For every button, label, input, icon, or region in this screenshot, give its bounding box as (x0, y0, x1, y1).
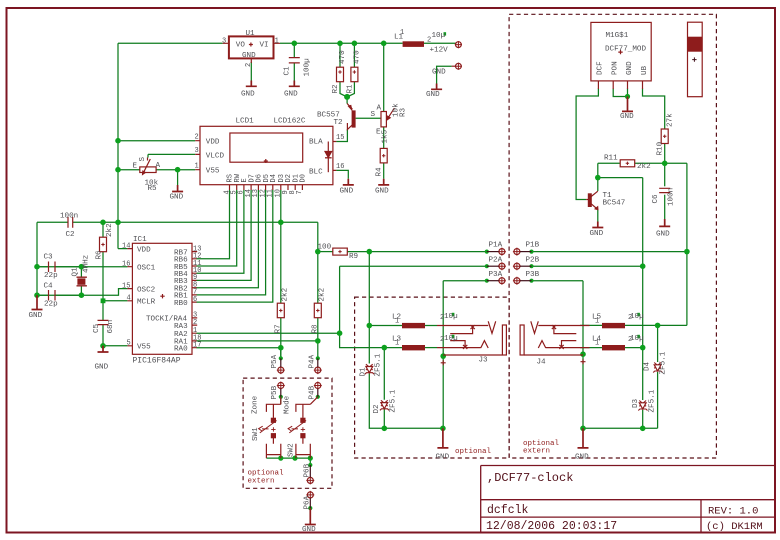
wire module GND pin (627, 89, 629, 97)
gnd symbol BLC (343, 179, 354, 185)
svg-text:3: 3 (222, 38, 226, 46)
svg-text:1: 1 (400, 29, 404, 37)
svg-text:GND: GND (436, 454, 450, 462)
svg-text:RA0: RA0 (174, 346, 188, 354)
IC1 PIC16F84 box (132, 243, 192, 354)
svg-text:GND: GND (426, 91, 440, 99)
wire UB pin to R10 (643, 89, 665, 130)
wire left gnd rail x37 (36, 222, 38, 295)
wire J3 sleeve down to gnd rail (442, 356, 444, 428)
svg-text:100: 100 (318, 244, 332, 252)
svg-text:22p: 22p (44, 272, 58, 280)
svg-text:R9: R9 (349, 253, 359, 261)
switch SW1 (259, 397, 281, 458)
dashed box switches (243, 378, 332, 488)
wire DCF pin down and to T1 base (576, 89, 598, 200)
capacitor C6 (659, 188, 670, 192)
inductor L4 (602, 345, 625, 350)
svg-text:GND: GND (29, 312, 43, 320)
gnd symbol R4 (378, 179, 389, 185)
wire D4 column (657, 325, 659, 428)
wire J4 sleeve to gnd rail (582, 354, 584, 428)
svg-text:BLC: BLC (309, 168, 323, 176)
svg-text:D3: D3 (632, 398, 640, 408)
svg-text:REV: 1.0: REV: 1.0 (708, 506, 758, 518)
svg-text:GND: GND (340, 188, 354, 196)
svg-text:ZF5.1: ZF5.1 (390, 389, 398, 412)
svg-text:S: S (139, 157, 147, 162)
svg-text:470: 470 (339, 50, 347, 64)
gnd symbol T1 (592, 222, 603, 228)
wire R9 left (318, 251, 333, 253)
terminal P2A (487, 262, 506, 270)
svg-text:1: 1 (395, 340, 399, 348)
svg-text:P4B: P4B (309, 385, 317, 399)
wire crystal top/bottom (80, 267, 82, 296)
svg-text:extern: extern (523, 448, 550, 456)
svg-text:1: 1 (195, 163, 199, 171)
svg-text:GND: GND (375, 188, 389, 196)
svg-text:ZF5.1: ZF5.1 (375, 353, 383, 376)
wire R8 bottom to P4A (317, 318, 319, 359)
svg-text:P1B: P1B (526, 242, 540, 250)
svg-text:R3: R3 (400, 107, 408, 117)
wire U1 gnd pin2 (250, 62, 252, 81)
wire left +5V vertical rail from U1 pin3 (118, 43, 127, 248)
svg-text:R4: R4 (376, 167, 384, 177)
svg-text:C5: C5 (93, 323, 101, 333)
wire L2 row (369, 325, 437, 327)
wire T2 collector to BLA (336, 129, 347, 142)
wire P5B to SW1 (280, 397, 282, 405)
wire OSC1 row (37, 266, 127, 268)
svg-text:1: 1 (595, 340, 599, 348)
terminal P6A (306, 491, 314, 508)
svg-text:J3: J3 (479, 357, 489, 365)
jack J4 (520, 321, 589, 355)
resistor R1 (351, 67, 358, 82)
wire RA2 row to dot A (196, 332, 339, 334)
terminal GND top (452, 63, 462, 70)
wire P1B row (532, 251, 687, 253)
svg-text:16: 16 (336, 163, 344, 171)
svg-text:C1: C1 (284, 66, 292, 76)
svg-text:P6A: P6A (304, 495, 312, 509)
wire LCD VSS row with pot (118, 169, 195, 171)
wire T2 emitter node (346, 97, 348, 104)
svg-text:R8: R8 (312, 324, 320, 334)
svg-text:R7: R7 (275, 324, 283, 333)
svg-text:P4A: P4A (309, 354, 317, 368)
transistor T1 BC547 (586, 191, 598, 210)
wire R3 bottom to R4 (383, 127, 385, 148)
terminal P3B (513, 277, 532, 285)
battery symbol (688, 22, 703, 97)
title block (481, 466, 775, 533)
wire C1 top (293, 43, 295, 57)
svg-text:7: 7 (296, 190, 304, 194)
J4 sleeve origin cross (581, 359, 586, 364)
svg-text:P3B: P3B (526, 271, 540, 279)
svg-text:17: 17 (193, 342, 201, 350)
svg-text:PIC16F84AP: PIC16F84AP (133, 357, 181, 366)
svg-text:U1: U1 (246, 30, 256, 38)
zener diode D1 (365, 364, 374, 374)
wire +5V horizontal rail (37, 221, 318, 223)
svg-text:C4: C4 (44, 283, 54, 291)
svg-text:GND: GND (95, 364, 109, 372)
svg-text:12/08/2006 20:03:17: 12/08/2006 20:03:17 (486, 520, 617, 533)
svg-text:S: S (371, 111, 376, 119)
svg-text:GND: GND (656, 231, 670, 239)
resistor R9 (333, 248, 348, 255)
svg-text:VDD: VDD (137, 247, 151, 255)
svg-text:ZF5.1: ZF5.1 (649, 389, 657, 412)
svg-text:GND: GND (241, 90, 255, 98)
svg-text:C3: C3 (44, 254, 54, 262)
wire right gnd rail (583, 427, 658, 429)
svg-text:GND: GND (284, 90, 298, 98)
svg-text:MCLR: MCLR (137, 299, 156, 307)
svg-text:T2: T2 (334, 119, 344, 127)
svg-text:PON: PON (611, 61, 619, 75)
capacitor C3 (49, 262, 56, 273)
svg-text:100n: 100n (60, 213, 78, 221)
inductor L2 (402, 323, 425, 328)
resistor R8 (314, 303, 321, 318)
svg-text:R2: R2 (332, 84, 340, 94)
zener diode D4 (653, 363, 662, 373)
LCD pin stubs (195, 141, 336, 190)
svg-text:4MHz: 4MHz (83, 255, 91, 273)
gnd symbol module (622, 97, 633, 112)
svg-text:V55: V55 (137, 344, 151, 352)
svg-text:GND: GND (575, 454, 589, 462)
J3 sleeve origin cross (441, 360, 446, 365)
svg-text:GND: GND (590, 230, 604, 238)
wire T2 base to R3 (356, 117, 382, 119)
wire T1 collector node right to P2B column (598, 177, 643, 179)
wire SW bottom rail (266, 457, 310, 459)
svg-text:RA3: RA3 (174, 323, 188, 331)
svg-text:VLCD: VLCD (206, 152, 225, 160)
svg-text:GND: GND (626, 61, 634, 75)
svg-text:68n: 68n (107, 320, 115, 334)
wire OSC2 row jog (37, 289, 127, 296)
wire D3 column from T1 collector node (642, 178, 644, 429)
svg-text:OSC2: OSC2 (137, 287, 156, 295)
crystal Q1 (77, 277, 87, 286)
wire D1 bottom rail left box (369, 373, 443, 428)
svg-text:OSC1: OSC1 (137, 265, 156, 273)
resistor R2 (337, 67, 344, 82)
wire R7 bottom to P5A (280, 318, 282, 359)
svg-text:10µ: 10µ (432, 32, 446, 40)
svg-text:R11: R11 (604, 155, 618, 163)
gnd symbol crystal rail (32, 295, 43, 309)
svg-text:extern: extern (248, 478, 275, 486)
svg-text:J4: J4 (537, 359, 547, 367)
wire R4 bottom to gnd (383, 163, 385, 179)
pin end dots (485, 250, 489, 254)
svg-text:D4: D4 (270, 174, 278, 182)
terminal P3A (487, 277, 506, 285)
mclr origin cross (160, 294, 164, 298)
svg-text:A: A (377, 105, 382, 113)
capacitor C4 (49, 290, 56, 301)
gnd symbol +12V terminal (431, 84, 442, 90)
svg-text:C2: C2 (66, 231, 76, 239)
svg-text:10µ: 10µ (630, 335, 644, 343)
jack J3 (437, 321, 506, 355)
svg-text:E: E (376, 129, 381, 137)
svg-text:22p: 22p (44, 301, 58, 309)
svg-text:GND: GND (242, 52, 256, 60)
wire R9 node down to L2 and D1 (368, 252, 370, 364)
svg-text:GND: GND (302, 526, 316, 534)
svg-text:R5: R5 (148, 185, 158, 193)
dashed box optional left (355, 297, 510, 458)
wire R3 top to rail (383, 43, 385, 111)
wire P3B row and down to J4 sleeve (532, 281, 584, 355)
inductor L5 (602, 323, 625, 328)
svg-text:UB: UB (641, 65, 649, 75)
potentiometer R3 (381, 108, 394, 127)
svg-text:100n: 100n (668, 188, 676, 206)
svg-text:P5B: P5B (271, 385, 279, 399)
svg-text:A: A (156, 162, 161, 170)
svg-text:15: 15 (336, 134, 344, 142)
svg-text:1k5: 1k5 (382, 129, 390, 143)
svg-text:27k: 27k (667, 113, 675, 127)
terminal P5B (277, 382, 285, 397)
svg-text:D1: D1 (360, 367, 368, 377)
wire R11 row (598, 162, 665, 164)
svg-text:2k2: 2k2 (282, 287, 290, 301)
svg-text:P5A: P5A (271, 354, 279, 368)
svg-text:R6: R6 (96, 250, 104, 260)
svg-text:Mode: Mode (284, 395, 292, 414)
svg-text:IC1: IC1 (133, 236, 147, 244)
svg-text:LCD1: LCD1 (236, 118, 255, 126)
wire P2A vertical and corner to L3 (340, 266, 402, 347)
svg-text:ZF5.1: ZF5.1 (660, 351, 668, 374)
svg-text:4: 4 (127, 295, 131, 303)
resistor R7 (277, 303, 284, 318)
capacitor C1 (289, 58, 300, 63)
svg-text:optional: optional (455, 448, 492, 456)
gnd symbol C5 (98, 346, 109, 352)
svg-text:DCF77_MOD: DCF77_MOD (605, 46, 646, 54)
wire D2 column (383, 348, 385, 429)
svg-text:11: 11 (267, 189, 275, 197)
wire +12V terminal GND stub (437, 66, 452, 83)
terminal P6B (306, 465, 314, 484)
svg-text:Q1: Q1 (72, 267, 80, 277)
wire C3 C4 plates gaps (37, 267, 81, 296)
regulator U1 (223, 36, 280, 63)
wire LCD VDD row (118, 140, 195, 142)
svg-text:C6: C6 (652, 194, 660, 204)
svg-text:GND: GND (620, 113, 634, 121)
wire LCD data bus verticals (196, 190, 229, 259)
wire BLC to gnd (336, 170, 348, 178)
svg-text:6: 6 (193, 296, 197, 304)
wire LCD D3 pin to rail / R7 column (280, 190, 282, 303)
transistor T2 BC557 (347, 104, 355, 130)
svg-text:2k2: 2k2 (637, 163, 651, 171)
terminal P1A (487, 248, 506, 256)
wire L3 row right of rect (425, 347, 437, 349)
svg-text:VDD: VDD (206, 139, 220, 147)
svg-text:,DCF77-clock: ,DCF77-clock (487, 471, 573, 485)
svg-text:1: 1 (275, 38, 279, 46)
zener diode D2 (380, 400, 389, 410)
wire +12V top rail left of U1 (118, 42, 223, 44)
svg-text:optional: optional (248, 470, 285, 478)
svg-text:2k2: 2k2 (319, 287, 327, 301)
svg-text:P1A: P1A (489, 242, 503, 250)
svg-text:15: 15 (122, 283, 130, 291)
resistor R11 (620, 160, 635, 167)
wire MCLR row (103, 300, 127, 302)
svg-text:10µ: 10µ (444, 335, 458, 343)
wire R11 left corner to T1 collector (597, 163, 599, 191)
svg-text:16: 16 (122, 261, 130, 269)
gnd symbol C6 (659, 219, 670, 226)
svg-text:DCF: DCF (597, 61, 605, 75)
svg-text:2: 2 (193, 319, 197, 327)
svg-text:VI: VI (260, 42, 269, 50)
terminal P5A (277, 358, 285, 374)
svg-text:2: 2 (245, 63, 253, 67)
gnd symbol J4 (578, 428, 589, 448)
svg-text:E: E (133, 163, 138, 171)
svg-text:P3A: P3A (489, 271, 503, 279)
capacitor C2 (68, 217, 73, 228)
dashed box optional extern right (509, 14, 716, 458)
svg-text:D0: D0 (300, 174, 308, 182)
inductor L3 (402, 345, 425, 350)
wire P2A row (340, 265, 487, 267)
gnd symbol LCD VSS (172, 185, 183, 192)
svg-text:2: 2 (195, 134, 199, 142)
terminal P1B (513, 248, 532, 256)
wire R1 top (347, 43, 354, 97)
svg-text:dcfclk: dcfclk (487, 504, 529, 517)
terminal P4B (314, 382, 322, 397)
wire L5 row (580, 324, 687, 326)
svg-text:R1: R1 (347, 84, 355, 94)
module origin cross (618, 50, 622, 54)
LCD1 box (200, 126, 333, 184)
terminal +12V (455, 41, 462, 48)
svg-text:(c) DK1RM: (c) DK1RM (706, 521, 763, 533)
wire L1 ends (455, 43, 457, 45)
svg-text:14: 14 (122, 243, 130, 251)
resistor R10 (661, 129, 668, 144)
wire R9 right to P1A (347, 251, 487, 253)
gnd symbol C1 (289, 81, 300, 87)
capacitor C5 (98, 320, 109, 324)
potentiometer R5 (140, 158, 156, 176)
wire C1 bottom to gnd (293, 63, 295, 80)
svg-text:D2: D2 (373, 404, 381, 414)
DCF77 module M1 (591, 22, 651, 89)
LCD backlight diode (325, 142, 332, 173)
svg-text:+12V: +12V (430, 47, 449, 55)
svg-text:1: 1 (595, 318, 599, 326)
svg-text:3: 3 (195, 147, 199, 155)
svg-text:1: 1 (395, 318, 399, 326)
svg-text:2k2: 2k2 (106, 223, 114, 237)
svg-text:P2B: P2B (526, 256, 540, 264)
svg-text:GND: GND (432, 69, 446, 77)
wire rail corner down to R8/R9 (317, 222, 319, 303)
svg-text:Zone: Zone (252, 395, 260, 414)
wire VSS IC row (103, 345, 127, 347)
wire C6 bottom to gnd (664, 195, 666, 219)
svg-text:V55: V55 (206, 168, 220, 176)
wire T1 emitter to gnd (597, 210, 599, 222)
svg-text:RB0: RB0 (174, 300, 188, 308)
terminal P4A (314, 358, 322, 374)
inductor L1 (403, 41, 424, 47)
svg-text:GND: GND (170, 194, 184, 202)
resistor R4 (380, 148, 387, 163)
svg-text:5: 5 (127, 340, 131, 348)
wire RA0 row (196, 347, 280, 349)
IC1 pin stubs (127, 249, 197, 348)
terminal P2B (513, 262, 532, 270)
zener diode D3 (638, 401, 647, 411)
wire P6B pin (309, 458, 311, 465)
wire P1B up column to R10 node (665, 163, 687, 325)
svg-text:BLA: BLA (309, 139, 323, 147)
svg-text:R10: R10 (657, 141, 665, 155)
svg-text:LCD162C: LCD162C (274, 118, 306, 126)
wire L4 row (580, 347, 643, 349)
wire P5A pin (280, 348, 282, 359)
wire LCD VLCD row to pot S (148, 154, 195, 157)
wire PON pin to gnd node (613, 89, 627, 97)
svg-text:P2A: P2A (489, 256, 503, 264)
svg-text:10µ: 10µ (444, 313, 458, 321)
wire P3A row and down to J3 sleeve (443, 281, 487, 356)
gnd symbol U1 (246, 81, 257, 87)
resistor R6 (100, 237, 107, 252)
svg-text:P6B: P6B (304, 463, 312, 477)
wire RA1 row (196, 340, 317, 342)
wire C5 column (102, 301, 104, 346)
switch SW2 (288, 397, 318, 458)
wire R6 column (102, 222, 104, 300)
svg-text:D4: D4 (644, 361, 652, 371)
svg-text:470: 470 (353, 50, 361, 64)
svg-text:SW2: SW2 (288, 443, 296, 457)
wire R10 bottom node C6 (664, 144, 666, 187)
wire R2 top (340, 43, 347, 97)
wire LCD VSS gnd branch (177, 170, 179, 185)
svg-text:SW1: SW1 (252, 427, 260, 441)
svg-text:M1G$1: M1G$1 (606, 32, 629, 40)
wire U1 out to L1 and +12V terminal (280, 42, 456, 44)
gnd symbol P6A (305, 508, 316, 524)
svg-text:10µ: 10µ (630, 313, 644, 321)
gnd symbol J3 (437, 428, 448, 448)
wire P2B row (532, 265, 643, 267)
svg-text:VO: VO (236, 42, 246, 50)
